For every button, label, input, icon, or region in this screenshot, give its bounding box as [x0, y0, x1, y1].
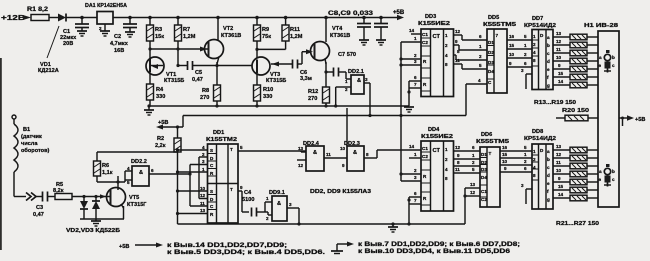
node VD3	[94, 195, 97, 198]
wire VD1 to DA1	[66, 17, 97, 19]
svg-text:b: b	[612, 169, 615, 174]
svg-text:DD2.2: DD2.2	[131, 159, 147, 165]
svg-text:7: 7	[414, 198, 417, 203]
svg-text:1: 1	[445, 147, 448, 152]
svg-text:b: b	[547, 157, 550, 162]
svg-text:B1: B1	[23, 127, 30, 133]
resistor R9	[254, 18, 272, 42]
svg-text:DD3: DD3	[425, 14, 436, 20]
ground note right	[331, 241, 520, 255]
svg-text:К155ТМ2: К155ТМ2	[206, 137, 237, 143]
flip-flop DD1	[200, 130, 238, 223]
svg-text:DD4: DD4	[428, 127, 440, 133]
transistor VT5	[107, 176, 148, 219]
svg-text:5: 5	[472, 167, 475, 172]
wire R7 down to C5 line	[176, 41, 179, 67]
svg-text:e: e	[547, 67, 550, 72]
node C2 junction	[128, 16, 132, 20]
svg-text:8: 8	[366, 152, 369, 157]
svg-text:3: 3	[414, 175, 417, 180]
svg-text:5: 5	[524, 145, 527, 150]
svg-text:CT: CT	[433, 34, 441, 40]
svg-text:11: 11	[455, 167, 460, 172]
svg-text:&: &	[353, 150, 357, 156]
svg-text:+12В: +12В	[1, 15, 25, 22]
svg-text:1: 1	[479, 44, 482, 49]
ground under C8	[359, 40, 369, 45]
svg-text:2: 2	[414, 168, 417, 173]
svg-text:1,2М: 1,2М	[183, 34, 196, 40]
svg-text:5: 5	[524, 34, 527, 39]
gate DD2.2	[127, 159, 190, 186]
svg-text:11: 11	[556, 160, 561, 165]
digit 1 of H1	[599, 50, 616, 73]
resistor R12	[308, 87, 330, 106]
svg-text:8: 8	[533, 58, 536, 63]
svg-text:a: a	[599, 169, 602, 174]
svg-text:2: 2	[414, 53, 417, 58]
capacitor C7	[326, 52, 356, 79]
svg-text:VD2,VD3 КД522Б: VD2,VD3 КД522Б	[66, 228, 120, 234]
svg-text:КТ361В: КТ361В	[330, 33, 350, 39]
svg-text:D2: D2	[488, 50, 494, 55]
svg-text:9: 9	[504, 166, 507, 171]
svg-text:к Выв.14 DD1,DD2,DD7,DD9;: к Выв.14 DD1,DD2,DD7,DD9;	[167, 242, 287, 249]
svg-text:2: 2	[445, 157, 448, 162]
resistor R11	[282, 18, 303, 50]
svg-text:числа: числа	[21, 141, 38, 147]
capacitors C8 C9	[328, 10, 388, 40]
svg-text:T: T	[489, 151, 492, 156]
svg-text:DD1: DD1	[213, 130, 224, 136]
svg-text:13: 13	[470, 182, 476, 187]
gate DD9.1	[265, 190, 301, 226]
svg-text:R7: R7	[183, 27, 190, 33]
scan edge artifact	[0, 58, 2, 250]
node rail VT4	[324, 16, 328, 20]
wire DD2.3 output to DD4	[377, 150, 421, 158]
diode VD3	[92, 197, 100, 220]
power arrow +5V right	[619, 115, 645, 126]
svg-text:75к: 75к	[262, 34, 271, 40]
svg-text:1: 1	[414, 152, 417, 157]
svg-text:g: g	[547, 83, 550, 88]
svg-text:11: 11	[200, 201, 205, 206]
svg-text:3: 3	[289, 202, 292, 207]
svg-text:7: 7	[414, 82, 417, 87]
svg-text:5: 5	[240, 145, 243, 150]
svg-text:12: 12	[556, 39, 562, 44]
svg-text:g: g	[547, 197, 550, 202]
svg-text:К155ИЕ2: К155ИЕ2	[418, 21, 450, 27]
svg-text:8: 8	[457, 160, 460, 165]
svg-text:H1 ИВ-28: H1 ИВ-28	[584, 23, 618, 29]
wire DD1 pin5 output	[238, 145, 306, 151]
svg-text:CT: CT	[433, 148, 441, 154]
svg-text:2: 2	[202, 152, 205, 157]
ground under C1	[77, 31, 87, 36]
svg-text:к Выв.5 DD3,DD4; к Выв.4 DD5,: к Выв.5 DD3,DD4; к Выв.4 DD5,DD6.	[167, 249, 325, 256]
svg-text:9: 9	[558, 176, 561, 181]
node rail R3	[148, 16, 152, 20]
svg-text:2: 2	[445, 43, 448, 48]
svg-text:15: 15	[509, 43, 515, 48]
node rail R11	[284, 16, 288, 20]
resistor R7	[175, 18, 196, 42]
svg-text:4: 4	[445, 53, 448, 58]
svg-text:R10: R10	[263, 87, 273, 93]
svg-text:C8,C9 0,033: C8,C9 0,033	[328, 10, 373, 17]
svg-text:10: 10	[200, 186, 206, 191]
svg-text:D1: D1	[488, 40, 494, 45]
capacitor C5	[178, 61, 217, 83]
wire VT5 collector node to DD2.2	[97, 171, 132, 184]
svg-text:КТ315Б: КТ315Б	[266, 78, 286, 84]
svg-text:10: 10	[340, 146, 346, 151]
svg-text:к Выв.7 DD1,DD2,DD9; к Выв.6: к Выв.7 DD1,DD2,DD9; к Выв.6 DD7,DD8;	[358, 241, 520, 248]
node rail VT2	[216, 16, 220, 20]
svg-text:1: 1	[266, 196, 269, 201]
svg-text:2: 2	[345, 87, 348, 92]
capacitor C4	[242, 190, 272, 217]
svg-text:5: 5	[479, 63, 482, 68]
transistor VT4	[306, 18, 350, 88]
svg-text:C1: C1	[422, 32, 428, 37]
svg-text:15: 15	[502, 152, 508, 157]
svg-text:c: c	[612, 63, 615, 68]
svg-text:9: 9	[240, 185, 243, 190]
ground under DA1 pin 2	[100, 31, 110, 36]
capacitor C2	[110, 18, 137, 55]
svg-text:3: 3	[521, 68, 524, 73]
svg-text:b: b	[547, 43, 550, 48]
wire DD1 pin9 output to C4	[238, 185, 249, 212]
node C1 junction	[80, 16, 84, 20]
svg-text:12: 12	[298, 163, 304, 168]
power arrow +5V top	[393, 10, 405, 20]
svg-text:DD9.1: DD9.1	[269, 190, 285, 196]
svg-text:DD6: DD6	[481, 132, 492, 138]
svg-text:C2: C2	[422, 40, 428, 45]
svg-text:&: &	[277, 201, 281, 207]
svg-text:12: 12	[470, 190, 476, 195]
wire DD2.1 output to reset line	[183, 83, 466, 127]
svg-text:(датчик: (датчик	[21, 134, 42, 140]
wire C5 node to VT3	[217, 65, 252, 67]
svg-text:2: 2	[266, 216, 269, 221]
svg-text:D1: D1	[481, 152, 487, 157]
diode VD1	[38, 14, 66, 75]
ground tap on bus	[388, 222, 398, 232]
svg-text:R2: R2	[157, 136, 164, 142]
svg-text:КР514ИД2: КР514ИД2	[524, 23, 556, 29]
svg-text:R20 150: R20 150	[562, 108, 589, 114]
wire R3 to VT1 base	[149, 41, 151, 57]
ground DD3 R9 pins	[404, 107, 414, 112]
svg-text:1: 1	[445, 33, 448, 38]
svg-text:4: 4	[445, 167, 448, 172]
svg-text:VT5: VT5	[129, 195, 139, 201]
svg-text:DD7: DD7	[532, 16, 543, 22]
svg-text:1: 1	[414, 36, 417, 41]
resistor R6	[94, 161, 113, 182]
svg-text:S: S	[210, 148, 213, 153]
svg-text:12: 12	[455, 29, 461, 34]
svg-text:2: 2	[533, 157, 536, 162]
svg-text:10: 10	[502, 159, 508, 164]
svg-text:DD2.1: DD2.1	[348, 69, 364, 75]
svg-text:330: 330	[156, 94, 165, 100]
svg-text:13: 13	[200, 208, 206, 213]
svg-text:R3: R3	[155, 27, 162, 33]
svg-text:0,47: 0,47	[192, 77, 203, 83]
svg-text:R13...R19 150: R13...R19 150	[534, 100, 576, 106]
svg-text:8: 8	[533, 173, 536, 178]
svg-text:1: 1	[533, 34, 536, 39]
svg-text:DD2, DD9 К155ЛА3: DD2, DD9 К155ЛА3	[310, 189, 371, 195]
svg-text:C5: C5	[195, 70, 202, 76]
svg-text:&: &	[139, 170, 143, 176]
wire R2 bottom to R6	[97, 152, 178, 161]
svg-text:D3: D3	[488, 60, 494, 65]
svg-text:C4: C4	[244, 190, 252, 196]
svg-text:&: &	[357, 78, 361, 84]
svg-text:C1: C1	[481, 189, 487, 194]
svg-text:1: 1	[345, 79, 348, 84]
svg-text:T: T	[230, 187, 233, 192]
wire R1 to VD1	[49, 17, 58, 19]
wire R2 to ground bus	[176, 148, 179, 224]
svg-text:КТ315Г: КТ315Г	[127, 202, 147, 208]
wire DD4 outputs to DD6	[454, 145, 481, 173]
wire DA1 output rail +5V	[113, 17, 400, 19]
svg-text:270: 270	[200, 95, 209, 101]
ground under C9	[376, 40, 386, 45]
decoder DD8	[521, 129, 556, 209]
svg-text:2: 2	[533, 42, 536, 47]
power arrow +5V mid	[156, 120, 183, 130]
svg-text:3: 3	[414, 59, 417, 64]
svg-text:2,2к: 2,2к	[155, 143, 166, 149]
svg-text:e: e	[599, 177, 602, 182]
transistor VT2	[200, 18, 241, 68]
svg-text:16: 16	[502, 145, 508, 150]
svg-text:6: 6	[524, 61, 527, 66]
svg-text:13: 13	[298, 146, 304, 151]
ground line under input stage	[80, 218, 124, 220]
node VT1 collector branch	[148, 47, 151, 50]
svg-text:8: 8	[445, 62, 448, 67]
svg-text:a: a	[547, 149, 550, 154]
svg-text:7: 7	[496, 33, 499, 38]
svg-text:1,2М: 1,2М	[290, 34, 303, 40]
svg-text:1,1к: 1,1к	[102, 170, 113, 176]
svg-text:b: b	[612, 55, 615, 60]
svg-text:6: 6	[414, 191, 417, 196]
svg-text:3: 3	[202, 159, 205, 164]
svg-text:16: 16	[509, 34, 515, 39]
node rail R7	[176, 16, 180, 20]
resistors R21-R27	[553, 144, 599, 227]
capacitor C1	[60, 18, 89, 48]
power input +12V	[1, 15, 31, 22]
svg-text:4: 4	[478, 78, 481, 83]
svg-text:1: 1	[202, 167, 205, 172]
resistor R10	[254, 85, 274, 106]
svg-text:1: 1	[472, 153, 475, 158]
svg-text:+5В: +5В	[635, 117, 645, 123]
input connector arrows	[26, 193, 42, 201]
counter DD3	[401, 14, 454, 106]
resistor R1	[27, 7, 49, 21]
svg-text:R11: R11	[290, 27, 300, 33]
svg-text:c: c	[547, 51, 550, 56]
svg-text:11: 11	[326, 152, 331, 157]
svg-text:1: 1	[524, 152, 527, 157]
svg-text:c: c	[612, 177, 615, 182]
resistor R5	[53, 182, 110, 200]
svg-text:DD5: DD5	[488, 15, 499, 21]
svg-text:10: 10	[509, 52, 515, 57]
svg-text:11: 11	[556, 47, 561, 52]
svg-text:14: 14	[409, 144, 415, 149]
svg-text:D3: D3	[481, 167, 487, 172]
latch DD6	[476, 132, 509, 207]
svg-text:+5В: +5В	[393, 10, 405, 16]
svg-text:КТ315Б: КТ315Б	[164, 78, 184, 84]
svg-text:d: d	[547, 173, 550, 178]
svg-text:a: a	[547, 35, 550, 40]
svg-text:14: 14	[558, 79, 564, 84]
wire coil to input arrows	[14, 196, 26, 198]
diode VD2	[80, 197, 88, 220]
decoder DD7	[521, 16, 556, 90]
svg-text:14: 14	[558, 192, 564, 197]
svg-text:КТ361В: КТ361В	[221, 33, 241, 39]
svg-text:оборотов): оборотов)	[21, 147, 50, 154]
resistors R13-R19	[534, 31, 598, 106]
svg-text:d: d	[547, 59, 550, 64]
node VD2	[82, 195, 85, 198]
wire VT1 to VT2 base	[150, 48, 209, 50]
svg-text:КР514ИД2: КР514ИД2	[524, 136, 556, 142]
svg-text:0,47: 0,47	[33, 212, 44, 218]
svg-text:R9: R9	[262, 27, 269, 33]
svg-text:8: 8	[445, 176, 448, 181]
svg-text:6: 6	[414, 75, 417, 80]
svg-text:R1 8,2: R1 8,2	[27, 7, 49, 13]
gate DD2.4	[297, 141, 347, 171]
svg-text:9: 9	[457, 153, 460, 158]
resistor R20	[556, 108, 598, 121]
svg-text:15: 15	[558, 71, 564, 76]
svg-text:R4: R4	[156, 87, 164, 93]
svg-text:к Выв.10 DD3,DD4, к Выв.11 DD: к Выв.10 DD3,DD4, к Выв.11 DD5,DD6	[358, 248, 511, 255]
svg-text:10: 10	[556, 168, 562, 173]
svg-text:VT2: VT2	[223, 26, 233, 32]
svg-text:6: 6	[151, 168, 154, 173]
svg-text:5: 5	[127, 180, 130, 185]
svg-text:R21...R27 150: R21...R27 150	[556, 221, 599, 227]
svg-text:&: &	[313, 150, 317, 156]
wire DD6 outputs to DD8	[500, 145, 532, 172]
svg-text:20В: 20В	[63, 41, 73, 47]
svg-text:3: 3	[365, 77, 368, 82]
digit 2 of H1	[599, 164, 616, 187]
svg-text:C2: C2	[422, 154, 428, 159]
svg-text:12: 12	[200, 193, 206, 198]
svg-text:5100: 5100	[242, 197, 254, 203]
svg-text:T: T	[230, 147, 233, 152]
resistor R2	[155, 127, 181, 152]
resistor R4	[147, 75, 166, 106]
voltage regulator DA1	[85, 3, 127, 31]
latch DD5	[479, 15, 516, 93]
resistor R3	[147, 18, 165, 42]
wire DD1 input feeders	[178, 150, 208, 214]
transistor VT1	[146, 57, 184, 84]
svg-text:2: 2	[472, 160, 475, 165]
wire R9 to VT3 collector	[255, 41, 285, 58]
svg-text:12: 12	[556, 152, 562, 157]
svg-text:4,7мкх: 4,7мкх	[110, 41, 129, 47]
svg-text:S: S	[210, 189, 213, 194]
svg-text:15к: 15к	[155, 34, 164, 40]
svg-text:9: 9	[558, 63, 561, 68]
counter DD4	[407, 127, 453, 226]
svg-text:R6: R6	[102, 163, 109, 169]
svg-text:4: 4	[127, 166, 130, 171]
ground symbol on rail	[144, 106, 154, 115]
wire DD5 outputs to DD7	[507, 34, 532, 67]
svg-text:10: 10	[556, 55, 562, 60]
svg-text:e: e	[547, 181, 550, 186]
gate DD2.3	[340, 108, 377, 171]
wire reset line counters	[399, 42, 421, 181]
svg-text:2: 2	[524, 159, 527, 164]
indicator tube H1	[584, 23, 619, 207]
svg-text:D4: D4	[488, 69, 494, 74]
node rail R9	[255, 16, 259, 20]
transistor VT3	[252, 57, 292, 85]
capacitor C6	[293, 52, 312, 82]
svg-text:VT4: VT4	[332, 26, 343, 32]
svg-text:4: 4	[202, 145, 205, 150]
gate DD2.1	[336, 69, 370, 106]
svg-text:e: e	[599, 63, 602, 68]
svg-text:КД212А: КД212А	[38, 68, 59, 74]
svg-text:3: 3	[521, 183, 524, 188]
svg-text:13: 13	[556, 144, 562, 149]
svg-text:+5В: +5В	[119, 244, 129, 250]
svg-text:270: 270	[308, 96, 317, 102]
svg-text:К155ИЕ2: К155ИЕ2	[421, 134, 453, 140]
svg-text:+5В: +5В	[158, 120, 168, 126]
svg-text:C7 570: C7 570	[338, 52, 356, 58]
svg-text:3,3м: 3,3м	[300, 76, 312, 82]
power note +5V left	[119, 242, 325, 256]
svg-text:R8: R8	[202, 88, 209, 94]
svg-text:1: 1	[524, 43, 527, 48]
ground bus bottom	[178, 223, 466, 225]
resistor R8	[200, 66, 221, 107]
svg-text:c: c	[547, 165, 550, 170]
svg-text:C3: C3	[36, 205, 43, 211]
wire DD6 strobe to bus	[463, 182, 480, 224]
svg-text:6: 6	[524, 166, 527, 171]
svg-text:4: 4	[533, 50, 536, 55]
svg-text:6: 6	[479, 34, 482, 39]
